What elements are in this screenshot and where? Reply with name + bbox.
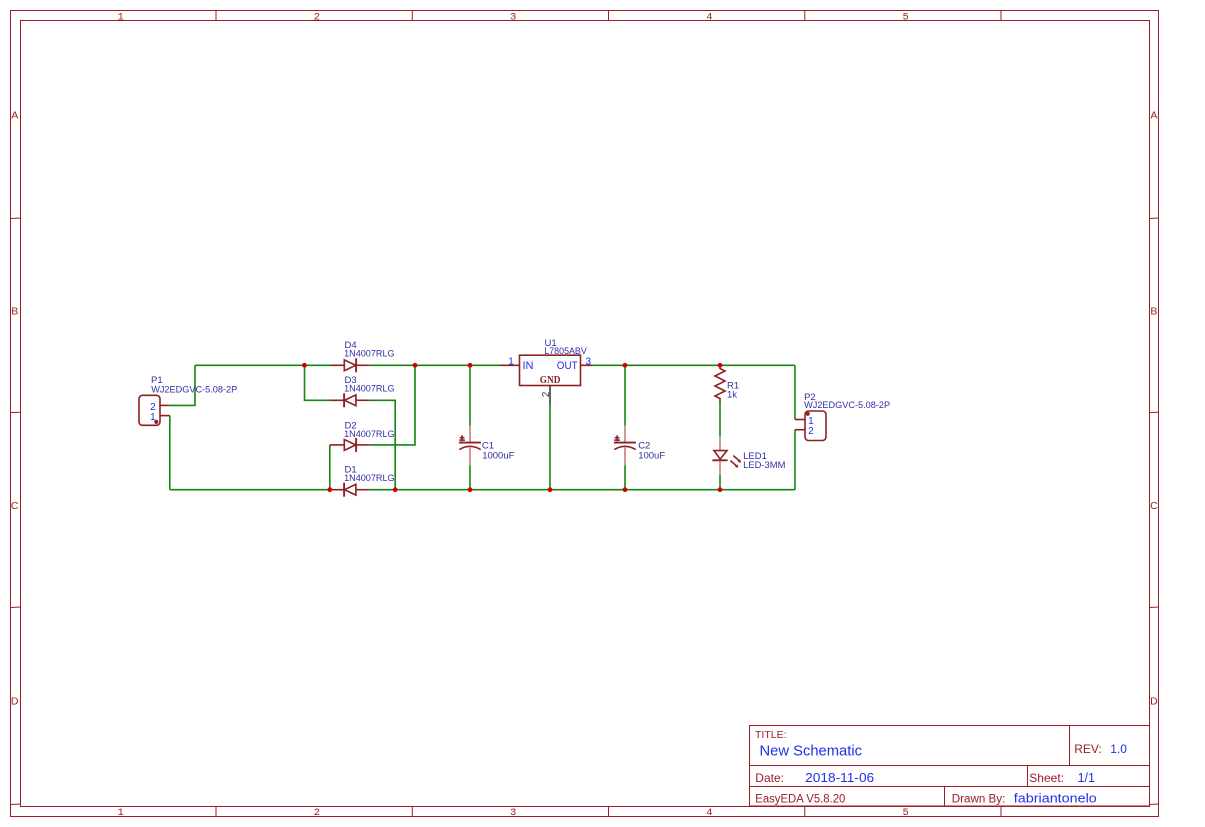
svg-text:New Schematic: New Schematic xyxy=(760,743,863,759)
wire top rail to C1 xyxy=(469,365,471,425)
svg-text:3: 3 xyxy=(586,357,592,368)
wire C1 to bottom rail xyxy=(469,465,471,490)
wire top rail segment left (to D4 anode) xyxy=(195,364,331,366)
svg-text:TITLE:: TITLE: xyxy=(755,729,787,741)
svg-text:A: A xyxy=(1150,109,1157,121)
wire R1 to LED1 xyxy=(719,403,721,437)
svg-text:1: 1 xyxy=(508,356,514,367)
svg-text:1N4007RLG: 1N4007RLG xyxy=(344,473,395,484)
svg-text:L7805ABV: L7805ABV xyxy=(544,346,587,357)
diode D1 xyxy=(331,464,395,496)
wire bottom rail segment left (to D1 cathode) xyxy=(170,489,331,491)
svg-text:1.0: 1.0 xyxy=(1110,742,1127,756)
svg-text:5: 5 xyxy=(902,807,908,819)
wire top rail segment middle (D4 cathode to U1 pin1) xyxy=(370,364,501,366)
wire bottom rail segment right (D1 anode to P2) xyxy=(370,489,795,491)
wire top rail segment right (U1 pin3 to P2 corner) xyxy=(592,364,795,366)
svg-text:1: 1 xyxy=(118,12,124,24)
svg-text:1: 1 xyxy=(150,412,156,423)
svg-text:2: 2 xyxy=(314,807,320,819)
svg-text:fabriantonelo: fabriantonelo xyxy=(1014,791,1097,806)
svg-text:2: 2 xyxy=(541,391,552,397)
svg-text:3: 3 xyxy=(510,12,516,24)
svg-text:1/1: 1/1 xyxy=(1078,771,1095,785)
svg-text:Date:: Date: xyxy=(755,771,784,785)
svg-text:1N4007RLG: 1N4007RLG xyxy=(344,383,395,394)
svg-text:EasyEDA V5.8.20: EasyEDA V5.8.20 xyxy=(755,794,845,806)
wire D2 cathode up to top rail xyxy=(370,365,415,445)
diode D2 xyxy=(330,421,395,452)
svg-text:C: C xyxy=(1150,500,1158,512)
svg-text:A: A xyxy=(11,109,18,121)
svg-text:IN: IN xyxy=(523,360,534,372)
connector P2 xyxy=(795,392,890,441)
diode D4 xyxy=(331,340,395,372)
svg-text:LED-3MM: LED-3MM xyxy=(743,460,785,471)
svg-text:1000uF: 1000uF xyxy=(482,450,514,461)
junction dots top rail xyxy=(302,363,307,368)
svg-text:REV:: REV: xyxy=(1074,742,1102,756)
wire LED1 to bottom rail xyxy=(719,475,721,490)
svg-text:1k: 1k xyxy=(727,389,737,400)
svg-text:B: B xyxy=(11,305,18,317)
svg-text:4: 4 xyxy=(706,807,712,819)
svg-text:Drawn By:: Drawn By: xyxy=(952,794,1006,806)
svg-text:1N4007RLG: 1N4007RLG xyxy=(344,349,395,360)
svg-text:2018-11-06: 2018-11-06 xyxy=(805,770,874,785)
wire P1 pin1 down to bottom rail xyxy=(169,416,171,490)
LED LED1 xyxy=(712,436,785,475)
wire drop to P2 pin1 xyxy=(794,365,796,419)
svg-text:3: 3 xyxy=(510,807,516,819)
svg-text:OUT: OUT xyxy=(557,360,578,372)
capacitor C1 xyxy=(459,426,515,466)
svg-text:5: 5 xyxy=(902,12,908,24)
CIRCUIT xyxy=(139,338,890,497)
svg-text:100uF: 100uF xyxy=(638,450,665,461)
svg-text:2: 2 xyxy=(808,426,814,437)
title block xyxy=(750,726,1150,807)
wire P1 pin2 to top rail xyxy=(170,365,195,405)
svg-text:Sheet:: Sheet: xyxy=(1029,771,1064,785)
svg-text:1N4007RLG: 1N4007RLG xyxy=(344,429,395,440)
regulator U1 xyxy=(501,338,593,405)
junction dots bottom rail xyxy=(327,487,332,492)
wire node top rail to D3 cathode xyxy=(305,365,331,400)
wire D3 anode down to bottom rail xyxy=(370,400,395,489)
svg-text:4: 4 xyxy=(706,12,712,24)
wire C2 to bottom rail xyxy=(624,465,626,490)
svg-text:1: 1 xyxy=(118,807,124,819)
svg-text:D: D xyxy=(1150,696,1158,708)
svg-text:C: C xyxy=(11,500,19,512)
wire D2 anode down to bottom rail xyxy=(329,445,331,490)
capacitor C2 xyxy=(614,426,665,466)
wire U1 GND to bottom rail xyxy=(549,405,551,490)
wire P2 pin2 to bottom rail xyxy=(794,430,796,490)
wire top rail to C2 xyxy=(624,365,626,425)
svg-text:WJ2EDGVC-5.08-2P: WJ2EDGVC-5.08-2P xyxy=(804,400,890,411)
resistor R1 xyxy=(715,365,739,402)
svg-text:GND: GND xyxy=(540,375,561,386)
svg-text:WJ2EDGVC-5.08-2P: WJ2EDGVC-5.08-2P xyxy=(151,385,237,396)
connector P1 xyxy=(139,375,237,425)
svg-text:2: 2 xyxy=(314,12,320,24)
svg-text:B: B xyxy=(1150,305,1157,317)
svg-text:D: D xyxy=(11,696,19,708)
diode D3 xyxy=(331,375,395,407)
